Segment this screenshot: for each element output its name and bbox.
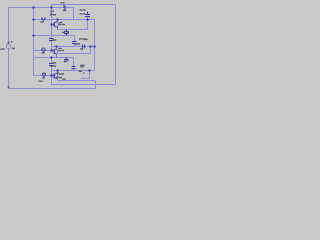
wire Q2 emitter row y57.5 bbox=[34, 57, 74, 59]
wire Q2 right y53.5 bbox=[59, 53, 91, 55]
wire Q3 base row y75.5 bbox=[34, 75, 55, 77]
wire bottom rail y84.5 bbox=[51, 84, 116, 86]
wire Q2 base row y50.5 bbox=[34, 50, 55, 52]
capacitor hang x66.5 row2 bbox=[66, 58, 68, 60]
wire vertical x73.5 lower to cap bbox=[73, 58, 75, 67]
capacitor on x51.5 upper bbox=[49, 38, 54, 40]
wire top rail bbox=[52, 4, 116, 6]
transistor Q2 bbox=[52, 47, 59, 58]
wire vertical x95.5 bbox=[95, 81, 97, 89]
resistor R1 on row1 bbox=[63, 5, 65, 10]
wire vertical x51.5 lower chain bbox=[51, 58, 53, 64]
wire row y19.5 bbox=[34, 19, 95, 21]
capacitor C1 bbox=[87, 12, 89, 15]
wire vertical x33.5 bias rail bbox=[33, 8, 35, 76]
capacitor on x73.5 lower bbox=[72, 66, 76, 68]
capacitor on x74.5 bbox=[72, 41, 77, 43]
wire row1 y7.5 bbox=[9, 7, 74, 9]
capacitor inline y46.5 bbox=[82, 45, 84, 49]
wire emitter row1 y29.5 bbox=[58, 29, 88, 31]
wire vertical x73.5 row1 bbox=[73, 8, 75, 20]
transistor Q1 bbox=[52, 20, 59, 30]
input source circle bbox=[6, 42, 10, 49]
wire vertical x51.5 upper chain bbox=[51, 5, 53, 39]
wire vertical x90.5 bbox=[90, 47, 92, 54]
bottom-left junction arrow bbox=[7, 86, 10, 88]
wire left rail upper bbox=[8, 8, 10, 44]
transistor Q3 bbox=[52, 71, 59, 81]
wire vertical x89.5 bbox=[89, 71, 91, 79]
resistor R3 base row1 y19.5 bbox=[41, 18, 45, 21]
wire C1 bottom lead down to y29.5 bbox=[87, 17, 89, 30]
capacitor emitter bypass1 x66.5 bbox=[66, 30, 68, 32]
wire left rail lower bbox=[8, 49, 10, 89]
wire bottom return y88.5 bbox=[9, 88, 96, 90]
wire row y46.5 coupling/collector2 bbox=[52, 46, 95, 48]
wire row y35.5 bbox=[34, 35, 75, 37]
text label smears bbox=[1, 2, 88, 82]
capacitor on x51.5 lower bbox=[49, 63, 54, 65]
wire vertical x74.5 to coupling cap bbox=[74, 36, 76, 42]
junction dots bbox=[33, 7, 96, 77]
wire row y78.5 bbox=[81, 78, 90, 80]
wire vertical x94.5 bbox=[94, 20, 96, 71]
wire row y70.5 collector Q3 bbox=[52, 70, 95, 72]
resistor R4 base row2 y50.5 bbox=[41, 49, 45, 52]
wire Q3 emitter row y80.5 bbox=[58, 80, 96, 82]
resistor R6 base row3 y75.5 bbox=[42, 74, 46, 77]
wire right rail bbox=[115, 5, 117, 85]
